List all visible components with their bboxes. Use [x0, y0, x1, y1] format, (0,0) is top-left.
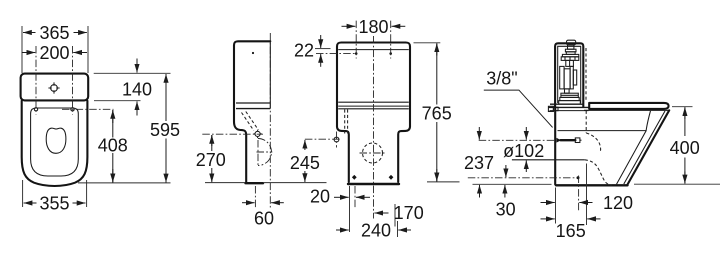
svg-text:170: 170	[394, 203, 424, 223]
svg-text:355: 355	[39, 194, 69, 214]
svg-text:408: 408	[98, 136, 128, 156]
svg-text:22: 22	[294, 41, 314, 61]
svg-text:30: 30	[496, 200, 516, 220]
svg-text:270: 270	[196, 150, 226, 170]
svg-text:365: 365	[39, 23, 69, 43]
svg-text:3/8": 3/8"	[486, 69, 517, 89]
svg-text:140: 140	[122, 80, 152, 100]
svg-text:245: 245	[290, 153, 320, 173]
svg-text:ø102: ø102	[503, 141, 544, 161]
svg-text:20: 20	[310, 187, 330, 207]
svg-text:237: 237	[464, 153, 494, 173]
svg-text:165: 165	[556, 221, 586, 241]
svg-text:595: 595	[150, 120, 180, 140]
svg-text:765: 765	[422, 104, 452, 124]
svg-text:200: 200	[39, 43, 69, 63]
svg-text:120: 120	[603, 193, 633, 213]
svg-text:180: 180	[358, 17, 388, 37]
svg-text:60: 60	[254, 209, 274, 229]
svg-text:240: 240	[361, 221, 391, 241]
svg-text:400: 400	[670, 138, 700, 158]
